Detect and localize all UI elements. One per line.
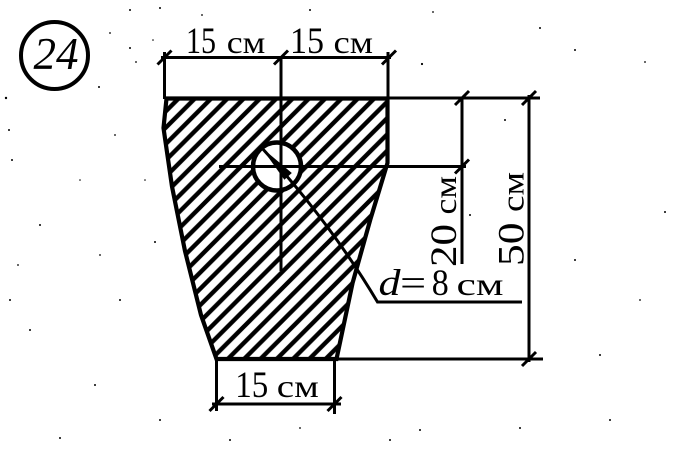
tick top-middle bbox=[274, 51, 288, 65]
tick top-right bbox=[382, 51, 396, 65]
svg-text:8: 8 bbox=[432, 263, 449, 304]
svg-text:50: 50 bbox=[492, 223, 533, 267]
trapezoid body (hatched) bbox=[164, 99, 388, 360]
top edge extension to right bbox=[388, 97, 540, 100]
leader line d=8 bbox=[261, 147, 522, 302]
bottom edge extension to right bbox=[336, 358, 543, 361]
top ext line right bbox=[387, 52, 390, 99]
svg-text:см: см bbox=[457, 266, 504, 302]
bottom dimension line bbox=[212, 403, 341, 406]
svg-text:15: 15 bbox=[290, 21, 324, 62]
top dimension line bbox=[161, 56, 391, 59]
tick bottom-left bbox=[210, 397, 224, 411]
svg-text:20: 20 bbox=[424, 224, 465, 267]
svg-text:см: см bbox=[277, 368, 319, 404]
tick bottom-right bbox=[328, 397, 342, 411]
svg-text:см: см bbox=[495, 172, 531, 212]
tick 20cm top bbox=[455, 91, 469, 105]
top ext line left bbox=[163, 52, 166, 99]
tick 50cm top bbox=[522, 91, 536, 105]
svg-text:24: 24 bbox=[34, 29, 79, 79]
dim line 20 cm bbox=[461, 98, 464, 264]
svg-text:=: = bbox=[400, 263, 426, 304]
tick 50cm bottom bbox=[522, 352, 536, 366]
svg-text:15: 15 bbox=[235, 365, 268, 406]
dim line 50 cm bbox=[528, 95, 531, 362]
svg-text:см: см bbox=[427, 176, 463, 215]
bottom ext line right bbox=[333, 361, 336, 414]
svg-text:см: см bbox=[227, 24, 265, 60]
badge circle 24 bbox=[21, 22, 88, 89]
leader arrowhead bbox=[261, 147, 292, 180]
svg-text:см: см bbox=[334, 24, 374, 60]
svg-text:15: 15 bbox=[186, 21, 216, 62]
svg-text:d: d bbox=[379, 263, 402, 304]
centerline horizontal bbox=[219, 165, 466, 168]
hole circle bbox=[253, 143, 301, 191]
centerline vertical bbox=[280, 58, 283, 272]
bottom ext line left bbox=[215, 361, 218, 411]
tick top-left bbox=[158, 51, 172, 65]
tick 20cm bottom bbox=[455, 160, 469, 174]
